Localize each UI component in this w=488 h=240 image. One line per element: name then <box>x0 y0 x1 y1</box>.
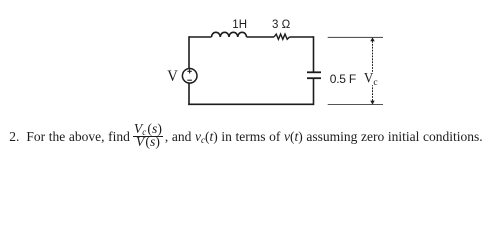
arrow down <box>370 101 374 105</box>
svg-text:1H: 1H <box>232 19 247 31</box>
capacitor C top plate <box>307 71 321 73</box>
inductor L 1H <box>212 32 247 37</box>
top wire right segment <box>290 36 314 38</box>
measurement bottom reference line <box>328 104 383 106</box>
svg-text:V: V <box>167 68 178 85</box>
dashed measure line <box>372 41 374 101</box>
svg-text:c: c <box>373 78 377 88</box>
top wire left segment <box>189 36 212 38</box>
svg-text:0.5 F: 0.5 F <box>330 72 356 86</box>
left wire bottom <box>188 84 190 106</box>
right wire bottom <box>313 78 315 105</box>
bottom wire <box>188 103 313 105</box>
minus sign <box>187 79 192 81</box>
voltage source V circle <box>182 69 197 84</box>
measurement top reference line <box>328 36 383 38</box>
capacitor C bottom plate <box>307 77 321 79</box>
top wire middle segment <box>247 36 275 38</box>
question text <box>9 121 487 153</box>
left wire top <box>188 36 190 68</box>
plus sign <box>187 69 191 73</box>
svg-text:V: V <box>364 71 374 87</box>
resistor R 3ohm <box>274 34 290 39</box>
right wire top <box>313 36 315 72</box>
svg-text:3: 3 <box>272 19 278 31</box>
svg-text:Ω: Ω <box>282 19 291 31</box>
white mask under Vc label <box>364 73 380 86</box>
arrow up <box>370 37 374 41</box>
